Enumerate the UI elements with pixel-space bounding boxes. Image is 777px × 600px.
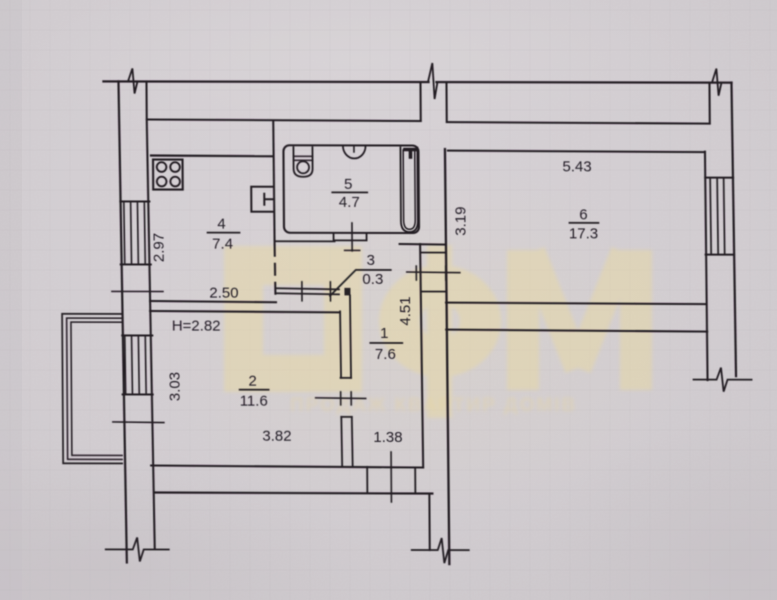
svg-text:1: 1: [380, 325, 388, 342]
closet north wall line: [276, 240, 335, 242]
svg-text:5: 5: [344, 176, 352, 193]
watermark group: [224, 245, 636, 418]
hall west wall lower segment: [341, 417, 352, 467]
bottom wall right jamb: [428, 494, 430, 551]
room6 bottom wall outer line: [446, 330, 707, 332]
top wall cut jambs middle: [420, 82, 446, 122]
bathtub inner: [403, 150, 415, 229]
svg-text:4.7: 4.7: [339, 194, 360, 211]
bathtub outer: [400, 148, 417, 233]
bathroom door dim line: [344, 223, 359, 251]
break symbol top-middle: [428, 63, 438, 99]
room5 fraction bar: [332, 191, 367, 193]
kitchen-bathroom wall solid part: [273, 122, 274, 245]
top wall inner jamb right: [708, 83, 710, 124]
bathroom sink: [293, 147, 312, 177]
room4 fraction bar: [208, 232, 240, 234]
break line bottom-middle wall: [412, 538, 469, 563]
break line bottom-left wall: [106, 537, 169, 561]
stove burners: [157, 162, 167, 172]
svg-text:4: 4: [217, 216, 225, 233]
kitchen window sills: [120, 201, 150, 264]
room1 fraction bar: [370, 342, 402, 344]
closet south wall double line: [276, 288, 339, 294]
svg-text:0.3: 0.3: [362, 271, 383, 288]
break symbol top-right: [712, 69, 722, 96]
svg-text:4.51: 4.51: [397, 296, 414, 325]
room6 door dim line: [407, 271, 460, 274]
sink bowl: [297, 161, 309, 173]
bathtub tap: [405, 150, 416, 158]
break symbol top-left: [128, 68, 138, 93]
svg-text:H=2.82: H=2.82: [172, 318, 221, 335]
svg-text:11.6: 11.6: [240, 393, 268, 410]
room6 outline top: [448, 151, 705, 153]
top exterior wall outer line: [103, 81, 731, 82]
kitchen bottom wall line: [150, 301, 276, 302]
break line bottom-right wall: [693, 368, 751, 392]
svg-text:3.82: 3.82: [262, 428, 291, 445]
svg-text:3: 3: [366, 252, 374, 269]
room6 fraction bar: [569, 222, 598, 224]
balcony inner outline: [71, 322, 122, 455]
balcony outer outline: [62, 314, 122, 464]
dimension and room texts: [150, 158, 600, 447]
watermark letter M: [507, 250, 539, 390]
svg-text:17.3: 17.3: [569, 225, 598, 242]
building bottom outer line: [154, 493, 432, 494]
room6 door jambs: [421, 253, 446, 292]
bathroom door threshold: [334, 233, 367, 241]
room1-room6 wall outer line: [445, 149, 449, 564]
stove: [153, 160, 183, 190]
toilet tick: [353, 146, 355, 152]
left exterior wall outer line: [118, 81, 126, 562]
floor plan drawing: [60, 62, 753, 564]
closet door post: [344, 288, 350, 296]
svg-text:7.4: 7.4: [212, 236, 233, 253]
kitchen window panes: [124, 201, 145, 264]
kitchen outline top: [151, 154, 273, 157]
entrance door jambs: [367, 467, 415, 494]
right exterior wall outer line: [731, 83, 736, 377]
svg-text:3.03: 3.03: [167, 372, 184, 401]
room2 door dim ticks: [341, 392, 352, 405]
closet door leaf and label leader: [330, 270, 391, 296]
dim tick on left wall room2: [113, 421, 164, 424]
sink lines: [293, 156, 312, 160]
hall west wall upper segment: [340, 295, 351, 378]
dim tick on left wall kitchen/room2: [112, 290, 163, 292]
top wall cut jamb left: [145, 81, 147, 119]
room2 door dim line: [316, 397, 366, 400]
watermark letter F ring: [379, 265, 501, 377]
balcony middle outline: [67, 318, 122, 459]
bathroom outline: [283, 145, 419, 233]
watermark letter D: [224, 246, 362, 392]
entrance dim line: [385, 452, 398, 502]
svg-text:2: 2: [248, 373, 256, 390]
room2 fraction bar: [240, 389, 269, 391]
watermark letter F stem: [427, 245, 452, 418]
room2 top wall line: [150, 311, 339, 312]
room6 door dim ticks: [416, 266, 446, 280]
toilet: [343, 146, 366, 159]
room2 door jambs: [341, 378, 352, 417]
svg-text:1.38: 1.38: [373, 429, 402, 446]
room2 and hall bottom inner line: [151, 466, 423, 468]
room6 window panes: [710, 178, 725, 255]
svg-text:2.97: 2.97: [151, 233, 168, 262]
svg-text:3.19: 3.19: [452, 207, 469, 236]
room6 east inner wall line: [705, 152, 708, 381]
hall east wall inner line: [420, 244, 423, 468]
svg-text:2.50: 2.50: [209, 285, 238, 302]
kitchen boiler: [251, 187, 273, 212]
svg-text:5.43: 5.43: [562, 158, 591, 175]
svg-text:6: 6: [579, 206, 587, 223]
top wall inner line right span: [447, 122, 710, 124]
bathroom south wall outer segment: [400, 243, 446, 246]
top wall inner line left span: [147, 119, 421, 121]
room2 window sills: [122, 335, 152, 394]
room6 window sills: [705, 178, 734, 255]
room6 bottom inner line: [446, 303, 706, 305]
svg-text:7.6: 7.6: [375, 346, 396, 363]
room2 window panes: [125, 335, 146, 394]
left exterior wall inner line: [147, 119, 155, 548]
kitchen-bathroom wall dashed part: [274, 245, 277, 302]
boiler symbol: [264, 194, 273, 205]
closet wall dim ticks: [302, 282, 331, 301]
